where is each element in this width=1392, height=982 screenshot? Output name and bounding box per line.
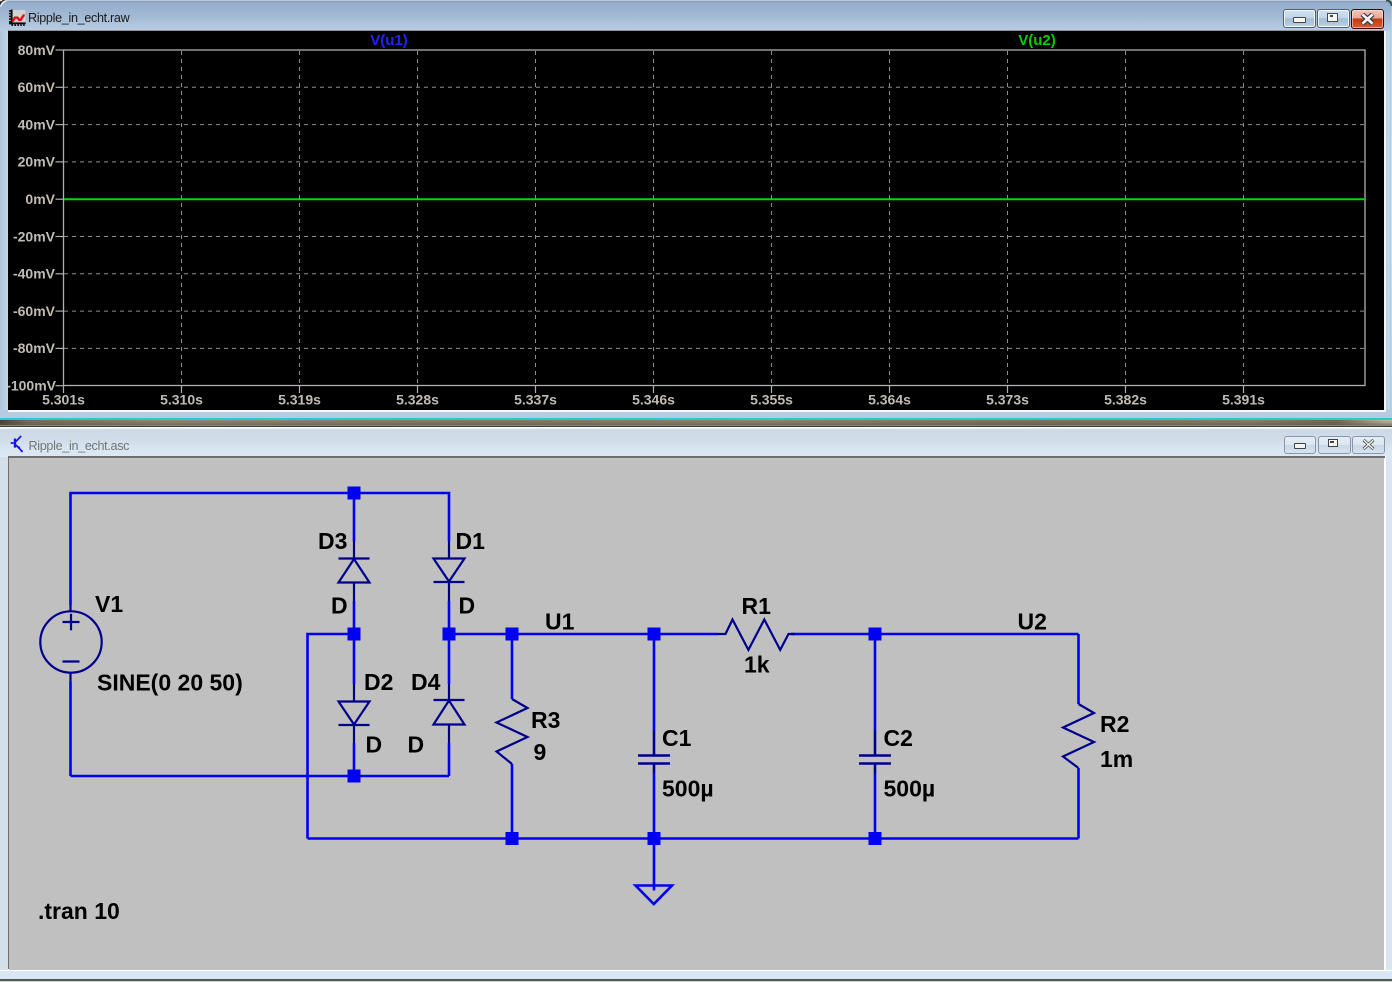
- svg-text:C1: C1: [662, 725, 692, 751]
- node U1 R3: [506, 628, 519, 641]
- diode D2: [339, 684, 370, 743]
- y axis labels: [6, 42, 56, 394]
- wire ground stub: [653, 839, 656, 891]
- svg-text:5.391s: 5.391s: [1222, 392, 1265, 408]
- svg-text:5.364s: 5.364s: [868, 392, 911, 408]
- svg-text:5.310s: 5.310s: [160, 392, 203, 408]
- node mid D1/D4: [443, 628, 456, 641]
- svg-text:R1: R1: [742, 593, 772, 619]
- vertical gridlines: [182, 51, 1244, 385]
- svg-text:D2: D2: [364, 669, 393, 695]
- svg-text:-40mV: -40mV: [13, 266, 56, 282]
- node mid D3/D2: [348, 628, 361, 641]
- svg-text:5.301s: 5.301s: [42, 392, 85, 408]
- svg-text:1k: 1k: [744, 652, 770, 678]
- junction nodes: [348, 487, 882, 846]
- svg-text:5.346s: 5.346s: [632, 392, 675, 408]
- wire C1 column: [653, 634, 656, 731]
- svg-text:D: D: [459, 593, 476, 619]
- horizontal gridlines: [64, 87, 1365, 348]
- svg-text:1m: 1m: [1100, 746, 1133, 772]
- side frames: [0, 457, 9, 982]
- axis ticks: [56, 50, 1244, 393]
- svg-text:D1: D1: [456, 528, 486, 554]
- wire D3 top: [353, 493, 356, 542]
- svg-text:40mV: 40mV: [18, 116, 56, 132]
- schematic gray area: [9, 458, 1384, 970]
- wire bottom V1 rail: [71, 775, 450, 778]
- resistor R2: [1063, 704, 1094, 768]
- svg-text:-60mV: -60mV: [13, 303, 56, 319]
- svg-text:.tran 10: .tran 10: [38, 898, 120, 924]
- svg-text:SINE(0 20 50): SINE(0 20 50): [97, 670, 243, 696]
- ground: [636, 886, 673, 905]
- svg-text:5.337s: 5.337s: [514, 392, 557, 408]
- capacitor C2: [859, 731, 891, 773]
- svg-text:9: 9: [534, 739, 547, 765]
- outer dark top edge + white highlight: [0, 426, 1392, 427]
- black plot client area: [8, 31, 1384, 410]
- node U1 C1: [648, 628, 661, 641]
- node U2 C2: [869, 628, 882, 641]
- svg-text:D3: D3: [318, 528, 347, 554]
- title icon (schematic): [6, 432, 24, 454]
- svg-text:R2: R2: [1100, 711, 1129, 737]
- svg-text:V1: V1: [95, 591, 123, 617]
- plot frame: [64, 50, 1366, 386]
- svg-text:U1: U1: [545, 609, 575, 635]
- node top D3: [348, 487, 361, 500]
- node D2 bottom: [348, 770, 361, 783]
- node gnd C1: [648, 832, 661, 845]
- caption buttons (inactive): [1284, 436, 1316, 454]
- diode D4: [434, 684, 465, 743]
- svg-text:5.355s: 5.355s: [750, 392, 793, 408]
- wire left top: [71, 493, 450, 605]
- wire R3 column: [511, 634, 514, 699]
- svg-text:D4: D4: [411, 669, 441, 695]
- caption buttons: [1283, 9, 1316, 28]
- svg-text:5.319s: 5.319s: [278, 392, 321, 408]
- svg-text:D: D: [366, 732, 383, 758]
- bottom frame of window: [0, 970, 1392, 971]
- wire D1 bottom: [448, 601, 451, 634]
- wire mid-left down: [308, 634, 355, 839]
- top-left rounded corner: [0, 0, 9, 9]
- desktop strip between windows: [0, 420, 1392, 425]
- wire C2 column: [874, 634, 877, 731]
- wire top rail: [69, 682, 72, 776]
- svg-text:500µ: 500µ: [884, 776, 936, 802]
- wire D4 span: [448, 634, 451, 684]
- svg-text:0mV: 0mV: [25, 191, 55, 207]
- wire mid rail: [449, 633, 718, 636]
- node gnd C2: [869, 832, 882, 845]
- content sunken border: [8, 456, 1386, 971]
- cyan frame edge under top window: [0, 418, 1392, 420]
- wire bottom rail: [308, 837, 1079, 840]
- svg-text:20mV: 20mV: [18, 154, 56, 170]
- window side frames: [0, 31, 8, 411]
- wire R2 column: [1077, 634, 1080, 704]
- svg-text:5.382s: 5.382s: [1104, 392, 1147, 408]
- svg-text:-80mV: -80mV: [13, 340, 56, 356]
- svg-text:5.328s: 5.328s: [396, 392, 439, 408]
- capacitor C1: [638, 731, 670, 773]
- svg-text:80mV: 80mV: [18, 42, 56, 58]
- x axis labels: [42, 392, 1265, 408]
- wire D2 span: [353, 634, 356, 684]
- diode D3: [339, 542, 370, 602]
- svg-text:V(u1): V(u1): [370, 32, 408, 49]
- svg-text:D: D: [331, 593, 348, 619]
- svg-text:D: D: [408, 732, 425, 758]
- svg-text:5.373s: 5.373s: [986, 392, 1029, 408]
- resistor R1: [718, 620, 796, 650]
- trace V(u2) green at 0mV: [64, 198, 1365, 200]
- voltage source V1 (sine): [40, 605, 101, 682]
- svg-text:500µ: 500µ: [662, 776, 714, 802]
- top-right corner nick: [1386, 0, 1392, 6]
- svg-text:U2: U2: [1018, 609, 1047, 635]
- title bar: [0, 0, 1392, 31]
- diode D1: [434, 542, 465, 602]
- resistor R3: [497, 699, 528, 764]
- svg-text:60mV: 60mV: [18, 79, 56, 95]
- title icon (waveform): [9, 9, 26, 26]
- svg-text:R3: R3: [531, 707, 560, 733]
- wire D3 bottom: [353, 601, 356, 634]
- svg-text:-20mV: -20mV: [13, 228, 56, 244]
- svg-text:C2: C2: [884, 725, 913, 751]
- svg-text:V(u2): V(u2): [1018, 32, 1056, 49]
- schematic drawing: [9, 458, 1383, 969]
- node gnd R3: [506, 832, 519, 845]
